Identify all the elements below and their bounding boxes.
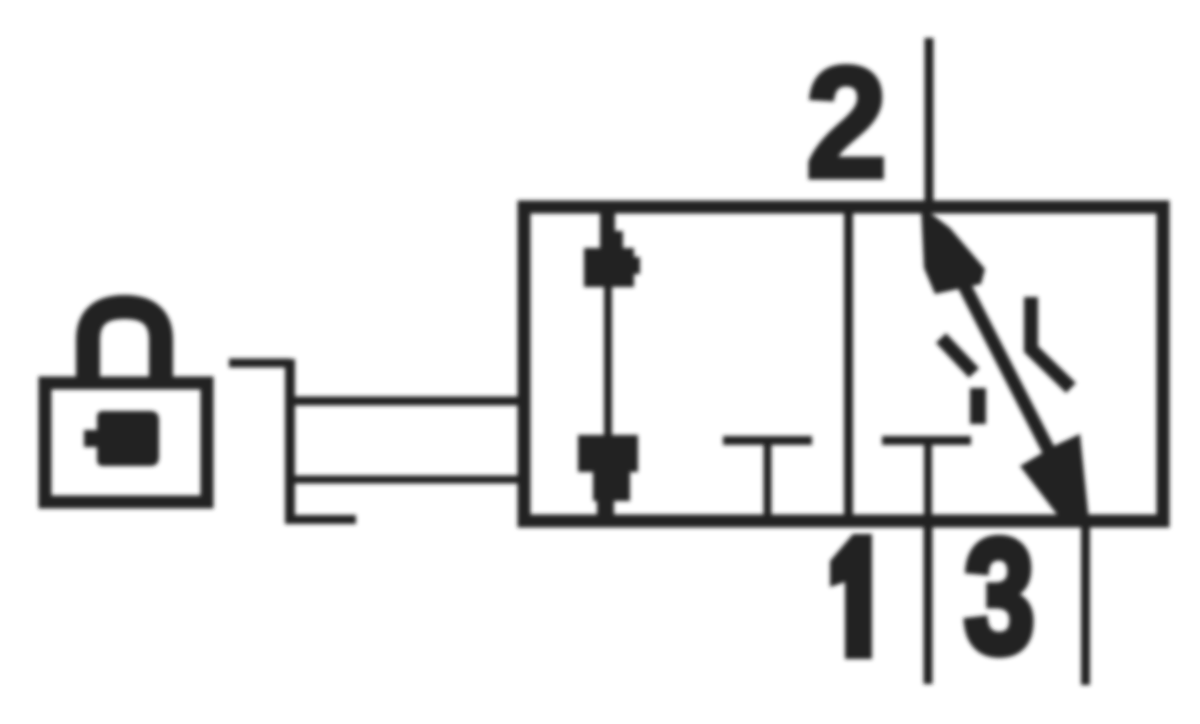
svg-text:3: 3 xyxy=(964,506,1035,687)
valve position divider xyxy=(844,207,853,521)
blocked port T (left compartment) xyxy=(723,436,812,445)
push rod upper xyxy=(290,397,522,406)
padlock shackle xyxy=(88,307,161,378)
flow path arrowhead at port 2 xyxy=(921,206,985,294)
valve body box xyxy=(524,207,1163,521)
double arrow top head xyxy=(584,213,640,287)
padlock keyhole xyxy=(84,411,159,466)
port 3 line xyxy=(1081,521,1090,685)
push rod lower xyxy=(290,476,522,484)
svg-text:2: 2 xyxy=(806,35,888,211)
flow path arrowhead at port 3 xyxy=(1020,434,1089,521)
relief chevron left lower segment xyxy=(970,388,986,424)
double arrow bottom head xyxy=(578,435,638,515)
port label 1 xyxy=(830,534,872,659)
detent bracket top arm xyxy=(229,359,290,368)
flow path diagonal shaft (2 to 3) xyxy=(940,238,1073,498)
relief chevron right xyxy=(1031,297,1071,388)
port label 3 xyxy=(964,506,1035,687)
blocked port T (right compartment, port 1) xyxy=(882,436,971,445)
port 2 line xyxy=(925,38,934,207)
detent bracket bottom arm xyxy=(285,515,356,524)
port 1 line xyxy=(924,521,933,684)
port label 2 xyxy=(806,35,888,211)
detent bracket vertical xyxy=(285,359,295,524)
padlock body xyxy=(45,383,207,502)
relief chevron left upper segment xyxy=(941,338,974,373)
double arrow shaft (left position) xyxy=(604,270,612,460)
